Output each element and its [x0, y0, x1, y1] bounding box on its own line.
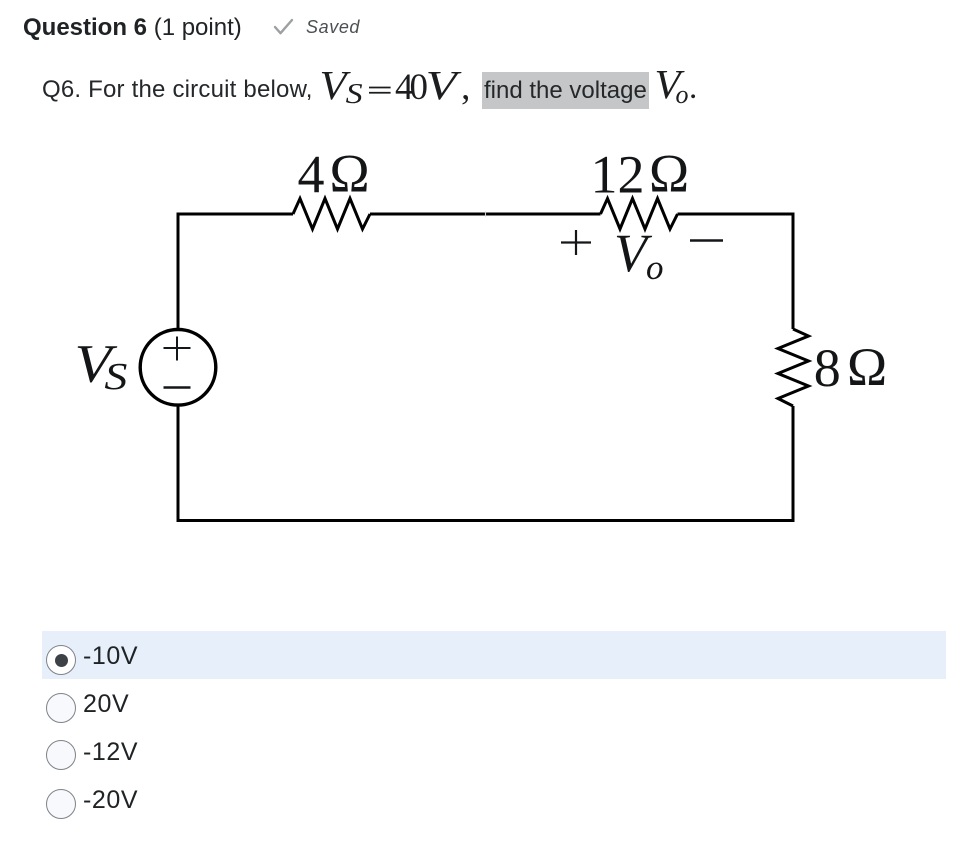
svg-text:Ω: Ω	[847, 337, 887, 397]
minus sign polarity Vo	[690, 239, 723, 242]
wire top-right segment	[678, 213, 795, 216]
question header	[23, 14, 242, 42]
plus sign polarity Vo	[561, 230, 591, 255]
math overlay svg	[0, 0, 973, 120]
option1 text	[83, 642, 138, 671]
svg-text:o: o	[646, 248, 664, 287]
highlighted text	[484, 77, 647, 105]
svg-text:V: V	[426, 62, 462, 108]
wire top-left segment	[178, 213, 293, 216]
saved checkmark	[273, 18, 295, 36]
svg-text:S: S	[104, 356, 127, 398]
wire top-middle segment	[370, 213, 601, 216]
option3 text	[83, 738, 138, 767]
resistor R1 4ohm zigzag	[293, 199, 370, 230]
wire left lower segment	[177, 405, 180, 522]
svg-text:o: o	[676, 80, 689, 109]
voltage source VS circle	[140, 330, 216, 406]
svg-text:Ω: Ω	[649, 144, 689, 204]
svg-text:S: S	[346, 78, 364, 110]
svg-text:Ω: Ω	[330, 144, 370, 204]
option2 text	[83, 690, 129, 719]
wire right upper segment	[792, 213, 795, 330]
radio option2	[46, 693, 76, 723]
radio selected option1	[46, 645, 76, 675]
radio option4	[46, 789, 76, 819]
radio option3	[46, 740, 76, 770]
saved text	[306, 17, 360, 38]
resistor R3 8ohm zigzag	[778, 329, 809, 406]
option4 text	[83, 786, 138, 815]
resistor R2 12ohm zigzag	[601, 199, 678, 230]
answer option 1 highlight row	[42, 631, 946, 679]
wire right lower segment	[792, 406, 795, 522]
minus sign inside source	[164, 386, 191, 388]
math equals sign	[369, 88, 391, 93]
question text sans part	[42, 76, 313, 104]
wire seam junction	[485, 212, 487, 217]
plus sign inside source	[164, 337, 191, 361]
radio dot option1	[55, 654, 68, 667]
wire bottom segment	[177, 519, 795, 522]
wire left upper segment	[177, 213, 180, 331]
svg-text:4: 4	[298, 145, 325, 205]
circuit schematic svg	[0, 140, 973, 570]
highlight rect find the voltage	[482, 72, 649, 109]
svg-text:8: 8	[814, 338, 841, 398]
svg-text:,: ,	[461, 67, 470, 108]
svg-text:.: .	[689, 70, 697, 106]
svg-text:12: 12	[591, 145, 645, 205]
